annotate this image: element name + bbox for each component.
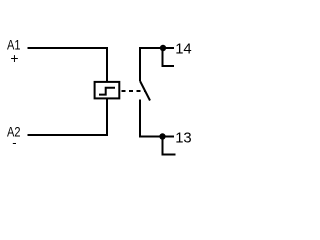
svg-text:+: + [10, 50, 18, 66]
svg-text:-: - [12, 135, 16, 150]
wire coil to A2 [28, 99, 108, 135]
terminal hook 13 [163, 137, 176, 155]
wire contact to terminal 13 [140, 100, 174, 137]
actuation dashed link coil to contact [122, 90, 146, 92]
svg-text:13: 13 [175, 130, 192, 147]
junction dot node 14 [160, 45, 166, 51]
coil step symbol [99, 88, 115, 95]
contact blade NO make contact [140, 81, 150, 101]
wire terminal 14 to contact [140, 48, 174, 81]
relay coil box K1 [95, 82, 120, 99]
junction dot node 13 [159, 133, 165, 139]
wire A1 to coil [28, 48, 108, 81]
terminal hook 14 [163, 48, 175, 66]
svg-text:14: 14 [175, 41, 192, 58]
